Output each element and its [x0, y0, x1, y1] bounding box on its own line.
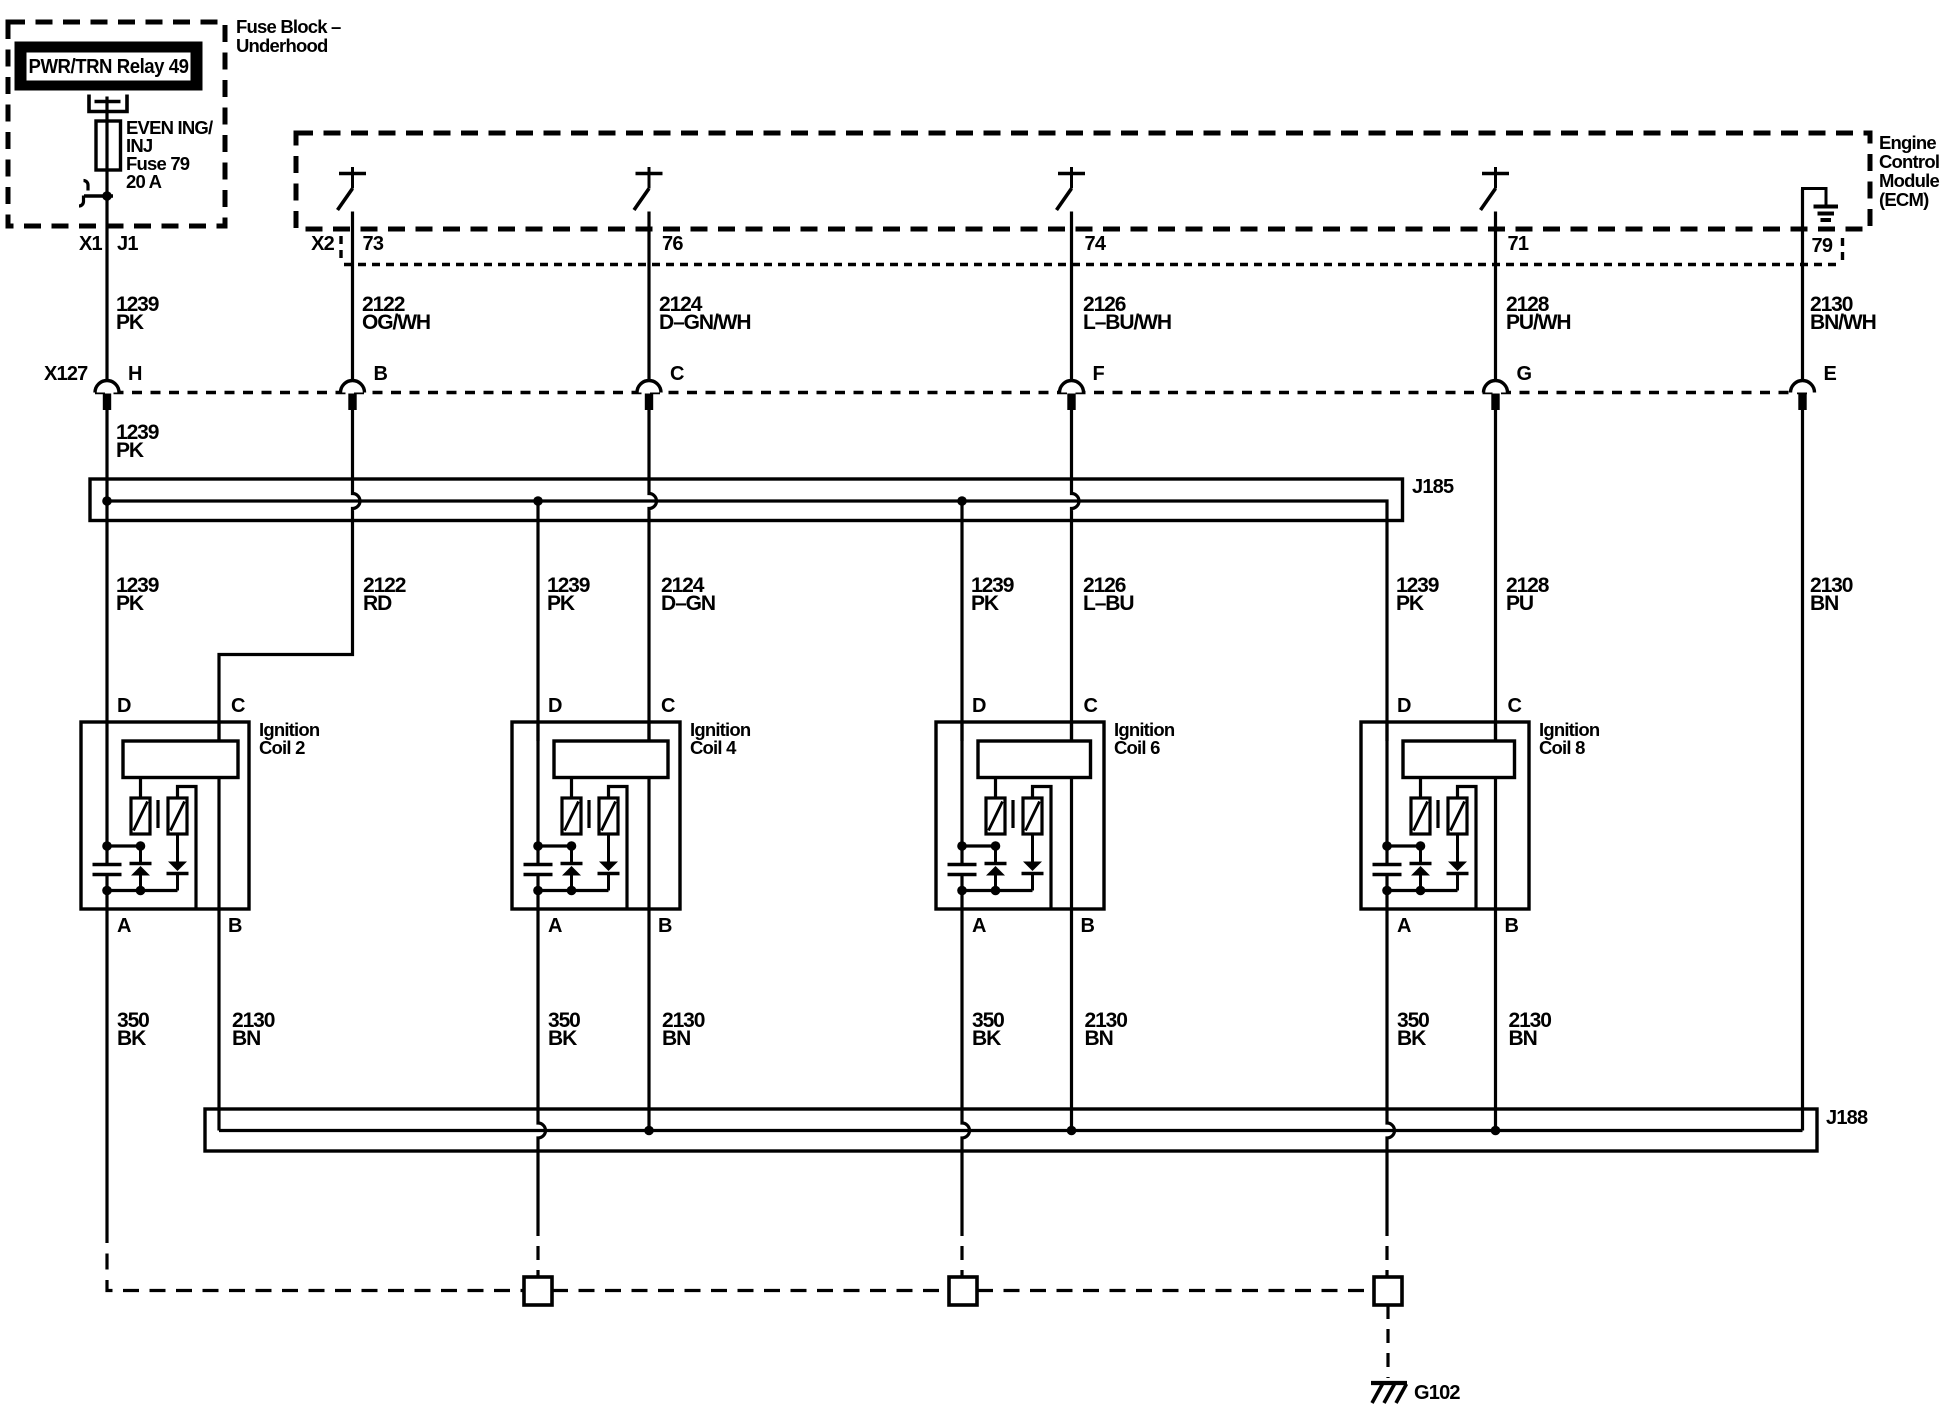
svg-text:PU: PU	[1506, 592, 1533, 615]
coil 6 secondary lead (winding2 top to right leg)	[1033, 787, 1052, 908]
ground splice connector 3	[1374, 1277, 1402, 1305]
svg-text:C: C	[1084, 695, 1098, 717]
wire 2122 OG/WH (ECM 73 to X127 B)	[351, 212, 354, 381]
coil 6 capacitor	[948, 863, 977, 866]
coil 2 pin C/B wire through housing	[217, 722, 220, 909]
coil 2 pin D wire through housing	[105, 722, 108, 865]
svg-text:Engine: Engine	[1879, 132, 1936, 153]
coil 2 diode 2 (down)	[176, 834, 179, 862]
junction dot J185 at 1239 PK main	[102, 496, 112, 506]
junction dot J188 coil8 B	[1491, 1126, 1501, 1136]
wire 2130 BN (coil2 B to J188)	[217, 909, 220, 1131]
svg-text:Coil 4: Coil 4	[690, 737, 737, 758]
ignition coil 2	[81, 695, 320, 937]
wire 2128 PU (X127 G to coil8 pin C)	[1494, 410, 1497, 741]
coil 4 winding 1	[562, 798, 581, 834]
coil 4 pin C/B wire through housing	[647, 722, 650, 909]
relay output terminal bracket	[89, 95, 127, 112]
coil 6 wire bar to winding 1	[994, 778, 997, 799]
X127 connector terminal C (arc + pin)	[637, 381, 661, 410]
wire 350 BK (coil4 A through J188 hop)	[538, 909, 546, 1222]
svg-text:D: D	[117, 695, 131, 717]
svg-text:PK: PK	[971, 592, 999, 615]
svg-text:Coil 6: Coil 6	[1114, 737, 1160, 758]
ECM driver switch for pin (74)	[1057, 167, 1086, 210]
ignition coil 6	[936, 695, 1175, 937]
X2 divider tick left	[339, 236, 342, 259]
svg-text:J188: J188	[1826, 1107, 1868, 1129]
svg-text:H: H	[128, 363, 142, 385]
svg-text:A: A	[972, 915, 986, 937]
svg-text:BK: BK	[117, 1027, 146, 1050]
svg-text:BN: BN	[1085, 1027, 1113, 1050]
coil 4 secondary lead (winding2 top to right leg)	[609, 787, 628, 908]
coil 2 winding 2	[168, 798, 187, 834]
dashed wire to G102	[1386, 1305, 1389, 1378]
wire 350 BK (coil8 A through J188 hop)	[1387, 909, 1395, 1222]
wire 2130 BN/WH (ECM 79 to X127 E)	[1801, 190, 1804, 381]
svg-text:B: B	[1505, 915, 1519, 937]
coil 6 pin D wire through housing	[960, 722, 963, 865]
ECM driver switch for pin (73)	[338, 167, 367, 210]
coil 2 housing box	[81, 722, 249, 909]
X2 divider tick right	[1841, 238, 1844, 261]
svg-text:71: 71	[1508, 233, 1529, 255]
svg-text:BK: BK	[1397, 1027, 1426, 1050]
svg-text:PK: PK	[116, 592, 144, 615]
svg-text:J1: J1	[117, 233, 138, 255]
wire 350 BK dashed segment to ground splice (coil6)	[960, 1222, 963, 1277]
X127 connector terminal E (arc + pin)	[1791, 381, 1815, 410]
svg-text:73: 73	[363, 233, 384, 255]
coil 2 bottom bus	[107, 889, 178, 892]
wire 2130 BN (coil8 B to J188)	[1494, 909, 1497, 1131]
wire 2128 PU/WH (ECM 71 to X127 G)	[1494, 212, 1497, 381]
ground splice connector 1	[524, 1277, 552, 1305]
svg-text:BN: BN	[1509, 1027, 1537, 1050]
wire 2130 BN (coil4 B to J188)	[647, 909, 650, 1131]
svg-text:A: A	[1397, 915, 1411, 937]
junction dot J185 feed coil6	[957, 496, 967, 506]
svg-text:PK: PK	[1396, 592, 1424, 615]
coil 2 link D to winding1 leg	[107, 844, 141, 847]
wire 1239 PK (J185 to coil4 pin D)	[536, 501, 539, 741]
wire 2124 D-GN (X127 C through J185 hop to coil4 pin C)	[649, 410, 657, 741]
svg-text:BK: BK	[972, 1027, 1001, 1050]
coil 6 housing box	[936, 722, 1104, 909]
coil 4 link D to winding1 leg	[538, 844, 572, 847]
coil 2 core	[156, 800, 159, 828]
svg-text:20 A: 20 A	[126, 171, 162, 192]
coil 4 diode 2 (down)	[607, 834, 610, 862]
relay contact bar	[95, 100, 121, 104]
junction dot J188 coil6 B	[1067, 1126, 1077, 1136]
coil 4 junction dot D	[533, 841, 543, 851]
svg-text:76: 76	[662, 233, 683, 255]
relay PWR/TRN Relay 49 (labelled box)	[19, 46, 198, 86]
svg-text:B: B	[228, 915, 242, 937]
coil 6 bottom bus	[962, 889, 1033, 892]
coil 8 wire bar to winding 1	[1419, 778, 1422, 799]
coil 2 diode 1 (up)	[139, 846, 142, 864]
svg-text:D: D	[1397, 695, 1411, 717]
coil 6 primary winding bar	[978, 741, 1091, 778]
coil 8 housing box	[1361, 722, 1529, 909]
coil 4 bottom bus	[538, 889, 609, 892]
wire 350 BK dashed segment to ground splice (coil4)	[536, 1222, 539, 1277]
svg-text:X127: X127	[44, 363, 88, 385]
coil 8 junction dot D	[1382, 841, 1392, 851]
svg-text:D: D	[972, 695, 986, 717]
wire 2126 L-BU (X127 F through J185 hop to coil6 pin C)	[1072, 410, 1080, 741]
coil 8 pin C/B wire through housing	[1494, 722, 1497, 909]
fuse block underhood (dashed enclosure)	[8, 22, 225, 226]
wire 2130 BN (coil6 B to J188)	[1070, 909, 1073, 1131]
svg-text:OG/WH: OG/WH	[362, 311, 430, 334]
svg-text:C: C	[670, 363, 684, 385]
coil 8 secondary lead (winding2 top to right leg)	[1458, 787, 1477, 908]
coil 8 diode 2 (down)	[1456, 834, 1459, 862]
X127 connector terminal F (arc + pin)	[1060, 381, 1084, 410]
svg-text:F: F	[1093, 363, 1105, 385]
svg-text:E: E	[1824, 363, 1837, 385]
coil 6 link D to winding1 leg	[962, 844, 996, 847]
svg-text:G102: G102	[1414, 1382, 1460, 1404]
svg-text:BN: BN	[232, 1027, 260, 1050]
coil 6 junction dot D	[957, 841, 967, 851]
svg-text:X2: X2	[311, 233, 335, 255]
svg-text:PK: PK	[547, 592, 575, 615]
junction dot J185 feed coil4	[533, 496, 543, 506]
coil 2 junction dot D	[102, 841, 112, 851]
svg-text:L–BU: L–BU	[1083, 592, 1133, 615]
svg-text:X1: X1	[79, 233, 103, 255]
svg-text:J185: J185	[1412, 476, 1454, 498]
coil 2 wire bar to winding 1	[139, 778, 142, 799]
svg-text:D–GN/WH: D–GN/WH	[659, 311, 750, 334]
coil 4 primary winding bar	[554, 741, 668, 778]
svg-text:74: 74	[1085, 233, 1107, 255]
X2 connector dotted row with pin numbers	[344, 263, 1841, 266]
coil 4 wire bar to winding 1	[570, 778, 573, 799]
coil 6 winding 2	[1023, 798, 1042, 834]
coil 4 winding 2	[599, 798, 618, 834]
svg-text:C: C	[231, 695, 245, 717]
coil 6 diode 2 (down)	[1031, 834, 1034, 862]
coil 6 diode 1 (up)	[994, 846, 997, 864]
ECM internal ground symbol (pin 79)	[1803, 189, 1839, 221]
svg-text:Fuse Block –: Fuse Block –	[236, 16, 341, 37]
relay switch contact (lower)	[84, 181, 89, 191]
svg-text:BN/WH: BN/WH	[1810, 311, 1876, 334]
coil 8 winding 2	[1448, 798, 1467, 834]
splice pack J188 (bus)	[205, 1109, 1817, 1151]
svg-text:Module: Module	[1879, 170, 1939, 191]
svg-text:(ECM): (ECM)	[1879, 189, 1929, 210]
svg-text:Coil 2: Coil 2	[259, 737, 305, 758]
svg-text:C: C	[1508, 695, 1522, 717]
wire 1239 PK (X127 H to J185)	[105, 410, 108, 722]
coil 8 core	[1436, 800, 1439, 828]
coil 6 pin C/B wire through housing	[1070, 722, 1073, 909]
coil 2 capacitor	[93, 863, 122, 866]
wire 1239 PK (J185 to coil6 pin D)	[960, 501, 963, 741]
coil 2 primary winding bar	[123, 741, 238, 778]
svg-text:L–BU/WH: L–BU/WH	[1083, 311, 1171, 334]
svg-text:D: D	[548, 695, 562, 717]
coil 2 secondary lead (winding2 top to right leg)	[178, 787, 197, 908]
svg-text:D–GN: D–GN	[661, 592, 715, 615]
wire 2130 BN (X127 E down to J188 splice)	[1801, 410, 1804, 1131]
J188 internal bus line	[219, 1129, 1803, 1132]
svg-text:PK: PK	[116, 311, 144, 334]
ground G102 symbol	[1371, 1383, 1407, 1403]
X127 connector dashed row	[95, 391, 1815, 394]
svg-text:79: 79	[1812, 235, 1833, 257]
X127 connector terminal G (arc + pin)	[1484, 381, 1508, 410]
svg-text:Control: Control	[1879, 151, 1939, 172]
Engine Control Module (ECM) dashed box	[296, 133, 1870, 229]
ECM driver switch for pin (71)	[1481, 167, 1510, 210]
svg-text:Underhood: Underhood	[236, 35, 328, 56]
J185 internal bus line (corner down to coil8 D wire)	[107, 501, 1387, 741]
ground splice connector 2	[949, 1277, 977, 1305]
svg-text:B: B	[1081, 915, 1095, 937]
wire 2124 D-GN/WH (ECM 76 to X127 C)	[647, 212, 650, 381]
svg-text:PU/WH: PU/WH	[1506, 311, 1571, 334]
wire 350 BK dashed segment to ground splice (coil8)	[1385, 1222, 1388, 1277]
coil 8 bottom bus	[1387, 889, 1458, 892]
coil 8 capacitor	[1373, 863, 1402, 866]
coil 4 capacitor	[524, 863, 553, 866]
coil 4 housing box	[512, 722, 680, 909]
wire 1239 PK from relay through fuse to X127 pin H	[105, 97, 108, 381]
wire 350 BK (coil2 A down, dashes to ground run)	[105, 909, 108, 1227]
coil 8 winding 1	[1411, 798, 1430, 834]
coil 6 core	[1011, 800, 1014, 828]
dashed ground run between splices	[552, 1289, 949, 1292]
svg-text:BN: BN	[662, 1027, 690, 1050]
svg-text:A: A	[548, 915, 562, 937]
coil 8 pin D wire through housing	[1385, 722, 1388, 865]
svg-text:PK: PK	[116, 439, 144, 462]
coil 4 core	[587, 800, 590, 828]
coil 4 pin D wire through housing	[536, 722, 539, 865]
ignition coil 8	[1361, 695, 1600, 937]
ignition coil 4	[512, 695, 751, 937]
X127 connector terminal H (arc + pin)	[95, 381, 119, 410]
svg-text:Coil 8: Coil 8	[1539, 737, 1585, 758]
svg-text:BK: BK	[548, 1027, 577, 1050]
svg-text:B: B	[658, 915, 672, 937]
coil 4 diode 1 (up)	[570, 846, 573, 864]
X127 connector terminal B (arc + pin)	[341, 381, 365, 410]
junction dot J188 coil4 B	[644, 1126, 654, 1136]
svg-text:RD: RD	[363, 592, 392, 615]
splice pack J185 (bus)	[90, 479, 1403, 521]
wire 2126 L-BU/WH (ECM 74 to X127 F)	[1070, 212, 1073, 381]
coil 8 link D to winding1 leg	[1387, 844, 1421, 847]
svg-text:PWR/TRN Relay 49: PWR/TRN Relay 49	[29, 56, 189, 78]
svg-text:BN: BN	[1810, 592, 1838, 615]
coil 8 primary winding bar	[1403, 741, 1515, 778]
svg-text:B: B	[374, 363, 388, 385]
coil 6 winding 1	[986, 798, 1005, 834]
svg-text:G: G	[1517, 363, 1532, 385]
ECM driver switch for pin (76)	[634, 167, 663, 210]
wire 350 BK (coil6 A through J188 hop)	[962, 909, 970, 1222]
svg-text:C: C	[661, 695, 675, 717]
coil 8 diode 1 (up)	[1419, 846, 1422, 864]
svg-text:A: A	[117, 915, 131, 937]
fuse EVEN ING/INJ Fuse 79 20 A	[96, 121, 121, 170]
coil 2 winding 1	[131, 798, 150, 834]
wire 2122 RD (X127 B through J185 hop, jog to coil2 pin C)	[219, 410, 360, 741]
